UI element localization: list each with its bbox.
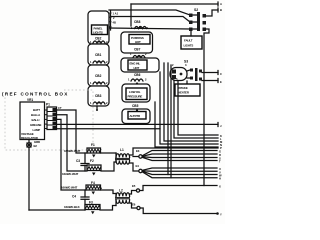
svg-text:F2: F2 (90, 159, 94, 163)
breaker CB7 element (130, 52, 147, 58)
wire bundle v2 (160, 72, 218, 144)
inductor L1 (115, 148, 130, 164)
breaker CB6 element (128, 78, 147, 82)
breaker CB5 element (128, 108, 146, 112)
terminal E4 (130, 163, 143, 173)
switch S2 (189, 8, 206, 31)
wire F3 to L2 bottom (100, 206, 116, 211)
svg-text:PRESSURE: PRESSURE (128, 95, 143, 99)
wire fan E3 a (142, 151, 217, 156)
wire fan E4 b (142, 170, 217, 173)
wire P1 pin2 to filter row 2 (57, 115, 88, 171)
label wire row2 16AWG WHT (62, 172, 79, 176)
intake heater box HR1 (175, 81, 200, 96)
wire S3 left leg 2 (170, 65, 172, 178)
breaker CB1 element (90, 60, 108, 64)
ground E2 (27, 140, 38, 211)
wire P1 pin5 to bundle (57, 128, 161, 130)
svg-text:LOW OIL: LOW OIL (129, 90, 141, 94)
svg-text:BALLA: BALLA (31, 113, 41, 117)
wire fan E3 b (142, 154, 217, 156)
circuit breaker panel left column box CB2 (88, 11, 109, 44)
breaker CB8 element (131, 26, 149, 30)
wire top bus A from CB8 to right edge (131, 4, 218, 26)
wire fan E4 a (142, 168, 217, 170)
svg-text:L1: L1 (120, 148, 124, 152)
switch S3 rotary (170, 63, 187, 81)
wire ground bus row4 (29, 209, 85, 211)
svg-text:1 A1: 1 A1 (113, 12, 119, 16)
filter F3 (85, 201, 101, 215)
relay box K1 preheat (121, 32, 153, 53)
terminal C (218, 71, 222, 77)
svg-text:P: P (220, 146, 222, 150)
circuit breaker box CB1 (88, 44, 109, 65)
wire bus to switch S2 pole 2 (111, 17, 190, 23)
breaker CB8 label (134, 20, 141, 24)
capacitor C3 (76, 153, 89, 171)
svg-text:S3: S3 (184, 60, 188, 64)
wire fan E3 c (142, 156, 217, 159)
svg-text:LIGHTS: LIGHTS (184, 44, 194, 48)
svg-text:(REF CONTROL BOX: (REF CONTROL BOX (2, 92, 69, 97)
svg-text:Y: Y (220, 213, 222, 217)
label wire row4 16AWG BLK (64, 205, 81, 209)
svg-text:X: X (219, 185, 221, 189)
wire P1 pin4 long bus right (57, 123, 219, 125)
wire bundle v3 (164, 63, 218, 141)
svg-text:CB3: CB3 (95, 94, 102, 98)
svg-text:FAULT: FAULT (184, 39, 193, 43)
wire F4 to L2 (101, 190, 117, 194)
wire E5 up to bus (140, 186, 217, 191)
svg-text:BALLI: BALLI (32, 118, 40, 122)
wire L1 top to right edge (130, 148, 218, 155)
wire fan E4 c (142, 171, 217, 174)
terminal E5 (130, 184, 140, 194)
filter F2 (87, 159, 101, 176)
wire S3 to terminal C (202, 72, 218, 74)
wire bus to switch S2 pole 3 (108, 28, 190, 29)
circuit breaker box CB2b (88, 65, 109, 86)
wire S3 left leg 1 (167, 63, 169, 175)
svg-text:B: B (220, 8, 222, 12)
svg-text:HOT: HOT (135, 40, 141, 44)
wire CB3 bottom stub (96, 106, 98, 111)
wire bundle v1 (155, 102, 218, 147)
wire bundle v5 (178, 81, 218, 135)
wire fan E3 d (142, 157, 217, 160)
relay box K2 engine hot (121, 58, 159, 72)
connector P1 (45, 103, 62, 130)
svg-text:BATT: BATT (33, 108, 40, 112)
svg-text:E6: E6 (132, 203, 136, 207)
voltage regulator VR1 (20, 98, 45, 144)
breaker CB3 element (90, 101, 108, 105)
breaker CB2 element (90, 40, 108, 44)
svg-text:CB5: CB5 (132, 104, 139, 108)
svg-text:CB6: CB6 (134, 73, 141, 77)
capacitor C4 (72, 190, 89, 210)
breaker CB2b element (90, 81, 108, 85)
svg-text:C3: C3 (76, 159, 80, 163)
wire switch S2 bottom pole down long vertical (204, 29, 209, 186)
svg-text:LIGHTS: LIGHTS (93, 31, 103, 35)
svg-text:E4: E4 (136, 164, 140, 168)
svg-text:ALTRTR: ALTRTR (130, 114, 142, 118)
wire P1 pin1 to filter row 1 (57, 110, 88, 153)
svg-text:16AWG WHT: 16AWG WHT (62, 172, 79, 176)
svg-text:P1: P1 (46, 103, 50, 107)
svg-text:G: G (219, 150, 221, 154)
svg-text:16AWG BLK: 16AWG BLK (64, 205, 81, 209)
terminal strip TB1 pins (103, 11, 119, 30)
svg-text:CB2: CB2 (95, 74, 102, 78)
wire F2 to L1 bottom (101, 162, 116, 171)
svg-text:E: E (220, 80, 222, 84)
svg-text:L2: L2 (119, 189, 123, 193)
svg-text:CB2: CB2 (95, 37, 102, 41)
svg-text:CB7: CB7 (134, 48, 141, 52)
switch S3 label (184, 60, 188, 64)
label wire row1 16AWG WHT (64, 149, 81, 153)
svg-text:INTAKE: INTAKE (178, 86, 188, 90)
breaker CB7 label (134, 48, 141, 52)
terminal E6 (130, 203, 140, 210)
terminal A (218, 2, 222, 6)
wire bundle v4 (174, 81, 218, 138)
svg-text:F1: F1 (91, 143, 95, 147)
label wire row3 16AWG WHT (61, 186, 78, 190)
control box dashed border (5, 90, 93, 150)
right edge terminal ticks and labels (218, 123, 223, 217)
svg-text:GREASE: GREASE (30, 123, 42, 127)
filter F1 (87, 143, 101, 158)
breaker CB6 label (134, 73, 141, 77)
breaker CB5 label (132, 104, 139, 108)
svg-text:HEATER: HEATER (178, 91, 190, 95)
svg-text:E5: E5 (132, 184, 136, 188)
breaker knots (98, 26, 141, 112)
terminal E (218, 79, 222, 85)
svg-text:ENG INL: ENG INL (130, 62, 141, 66)
inductor L2 (115, 189, 130, 206)
wire P1 pin3 to filter row 3 (57, 119, 87, 190)
svg-text:16AWG WHT: 16AWG WHT (64, 149, 81, 153)
switch S3 contacts (187, 68, 202, 81)
svg-text:E2: E2 (34, 144, 38, 148)
svg-text:CB8: CB8 (134, 20, 141, 24)
relay box K3 low oil pressure (122, 84, 150, 102)
svg-text:4B: 4B (113, 21, 116, 25)
svg-text:CB1: CB1 (95, 53, 102, 57)
wire switch S2 to terminal B (206, 10, 218, 16)
circuit breaker box CB3 (88, 86, 109, 106)
svg-text:E3: E3 (136, 149, 140, 153)
svg-text:LAMP: LAMP (33, 128, 41, 132)
control box title (2, 92, 69, 97)
terminal B (218, 8, 222, 12)
svg-text:A: A (220, 2, 222, 6)
fault lights indicator box DS1 (181, 31, 202, 49)
wire fan E4 d (142, 172, 217, 178)
wire from terminal strip to switch S2 pole 1 (109, 10, 190, 15)
svg-text:C4: C4 (72, 195, 76, 199)
wire F1 to L1 (101, 152, 117, 154)
svg-text:H: H (219, 177, 221, 181)
wire E6 to right dot (140, 208, 219, 215)
relay box K4 alternator (122, 109, 150, 124)
svg-text:16AWG WHT: 16AWG WHT (61, 186, 78, 190)
terminal E3 (133, 149, 142, 158)
svg-text:R: R (219, 153, 221, 157)
filter F4 (86, 181, 102, 195)
svg-text:HOT: HOT (134, 66, 140, 70)
svg-text:C: C (220, 72, 222, 76)
wire S3 to terminal E (202, 80, 218, 82)
svg-text:S2: S2 (194, 8, 198, 12)
